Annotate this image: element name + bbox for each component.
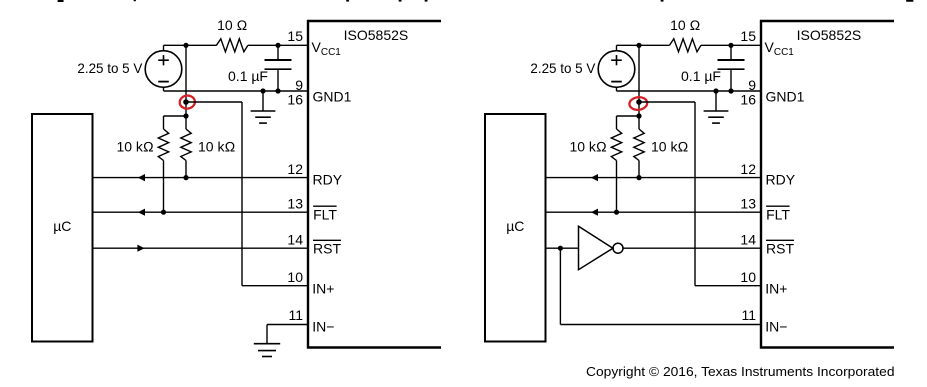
svg-text:FLT: FLT xyxy=(313,206,337,222)
wire IN- pin 11 right xyxy=(560,324,761,326)
pin number 10 left xyxy=(287,269,303,285)
pin label GND1 left xyxy=(313,89,352,105)
wire vsource top stub left xyxy=(163,45,165,51)
capacitor C_right value label 0.1 uF xyxy=(681,68,721,84)
pin label RST (active low) left xyxy=(313,240,341,256)
pin number 12 right xyxy=(740,161,756,177)
capacitor C_left value label 0.1 uF xyxy=(228,68,268,84)
voltage source label 2.25 to 5 V left xyxy=(77,60,143,76)
voltage source V_left 2.25 to 5 V xyxy=(145,51,182,88)
voltage source label 2.25 to 5 V right xyxy=(530,60,596,76)
wire node to IN+ branch horizontal right xyxy=(639,101,695,103)
resistor R_leftB value label 10 kOhm xyxy=(116,139,153,155)
junction bottom rail / capacitor left xyxy=(275,88,280,93)
wire bottom rail to GND1 pin 9/16 right xyxy=(617,90,762,92)
wire RDY pin 12 to uC right xyxy=(546,174,762,181)
wire node to IN+ branch horizontal left xyxy=(186,101,242,103)
pin number 15 right xyxy=(740,28,756,44)
wire resistor to VCC1 pin 15 left xyxy=(248,44,308,46)
wire bottom rail to GND1 pin 9/16 left xyxy=(164,90,309,92)
pin label VCC1 left xyxy=(312,39,342,58)
svg-text:11: 11 xyxy=(741,307,756,323)
svg-text:13: 13 xyxy=(740,196,756,212)
ground symbol at GND1 right xyxy=(704,91,729,123)
svg-text:IN+: IN+ xyxy=(765,281,787,297)
voltage source V_right 2.25 to 5 V xyxy=(598,51,635,88)
capacitor C_right 0.1 uF xyxy=(718,45,745,91)
wire resistor to VCC1 pin 15 right xyxy=(701,44,761,46)
svg-text:10 Ω: 10 Ω xyxy=(217,17,247,33)
junction bottom rail / ground right xyxy=(713,88,718,93)
pin label IN+ right xyxy=(765,281,787,297)
wire top supply rail to resistor right xyxy=(617,44,670,46)
svg-text:RST: RST xyxy=(313,240,341,256)
junction RST/IN- right xyxy=(558,246,563,251)
copyright notice xyxy=(586,364,895,379)
wire RDY pin 12 to uC left xyxy=(93,174,309,181)
pin number 11 right xyxy=(741,307,756,323)
wire FLT pin 13 to uC right xyxy=(546,209,762,216)
pin label FLT (active low) left xyxy=(313,206,337,222)
pin label RST (active low) right xyxy=(766,240,794,256)
wire vsource bottom stub right xyxy=(616,87,618,91)
pin label IN+ left xyxy=(312,281,334,297)
pin label IN- left xyxy=(312,319,334,335)
pin label VCC1 right xyxy=(765,39,795,58)
node highlighted (red circle) left xyxy=(179,95,196,110)
pin label FLT (active low) right xyxy=(766,206,790,222)
pin number 13 right xyxy=(740,196,756,212)
svg-text:12: 12 xyxy=(740,161,756,177)
wire IN+ branch to pin 10 left xyxy=(242,285,308,287)
wire vsource top stub right xyxy=(616,45,618,51)
resistor R_rightA 10 Ohm xyxy=(670,39,702,52)
resistor R_leftC 10 kOhm (right pull) xyxy=(181,116,191,178)
IC U_right label ISO5852S xyxy=(797,27,862,43)
pin label IN- right xyxy=(765,319,787,335)
junction RDY / divider left xyxy=(183,175,188,180)
microcontroller box uC right xyxy=(485,114,546,342)
svg-text:RDY: RDY xyxy=(766,172,796,188)
resistor R_rightB value label 10 kOhm xyxy=(569,139,606,155)
resistor R_rightC value label 10 kOhm xyxy=(651,139,688,155)
svg-text:13: 13 xyxy=(287,196,303,212)
wire IN+ branch vertical left xyxy=(241,102,243,286)
pin number 10 right xyxy=(740,269,756,285)
svg-text:15: 15 xyxy=(287,28,303,44)
pin label GND1 right xyxy=(766,89,805,105)
wire FLT pin 13 to uC left xyxy=(93,209,309,216)
junction RDY / divider right xyxy=(636,175,641,180)
IC U_left label ISO5852S xyxy=(344,27,409,43)
junction FLT / divider right xyxy=(614,210,619,215)
ground symbol at IN- left xyxy=(254,344,280,357)
pin number 9 left xyxy=(295,77,303,93)
svg-text:2.25 to 5 V: 2.25 to 5 V xyxy=(77,60,143,76)
junction divider top right xyxy=(636,113,641,118)
resistor R_leftB 10 kOhm (left pull) xyxy=(158,116,168,212)
cropped caption text fragments at top edge xyxy=(58,0,914,2)
svg-text:2.25 to 5 V: 2.25 to 5 V xyxy=(530,60,596,76)
IC U_left ISO5852S box outline xyxy=(308,21,441,348)
resistor R_leftC value label 10 kOhm xyxy=(198,139,235,155)
svg-text:14: 14 xyxy=(287,232,303,248)
svg-text:Copyright © 2016, Texas Instru: Copyright © 2016, Texas Instruments Inco… xyxy=(586,364,895,379)
svg-text:GND1: GND1 xyxy=(313,89,352,105)
svg-text:15: 15 xyxy=(740,28,756,44)
pin label RDY right xyxy=(766,172,796,188)
wire inverter output to RST pin 14 right xyxy=(623,247,761,249)
capacitor C_left 0.1 uF xyxy=(265,45,292,91)
svg-text:0.1 µF: 0.1 µF xyxy=(681,68,721,84)
svg-text:0.1 µF: 0.1 µF xyxy=(228,68,268,84)
junction bottom rail / capacitor right xyxy=(728,88,733,93)
svg-text:10 Ω: 10 Ω xyxy=(670,17,700,33)
wire vsource bottom stub left xyxy=(163,87,165,91)
svg-text:12: 12 xyxy=(287,161,303,177)
svg-text:GND1: GND1 xyxy=(766,89,805,105)
svg-text:FLT: FLT xyxy=(766,206,790,222)
pin number 16 right xyxy=(740,92,756,108)
wire RST uC to inverter input right xyxy=(546,247,579,249)
wire divider drop from top rail node left xyxy=(185,45,187,116)
svg-text:10: 10 xyxy=(740,269,756,285)
svg-text:ISO5852S: ISO5852S xyxy=(797,27,862,43)
pin number 13 left xyxy=(287,196,303,212)
svg-text:IN+: IN+ xyxy=(312,281,334,297)
wire RST node down to IN- right xyxy=(559,248,561,324)
junction node A (red circled) right xyxy=(636,99,642,105)
wire RST uC to pin 14 left xyxy=(93,245,309,252)
junction top rail / divider right xyxy=(636,43,641,48)
resistor R_rightB 10 kOhm (left pull) xyxy=(611,116,621,212)
svg-text:10: 10 xyxy=(287,269,303,285)
junction divider top left xyxy=(183,113,188,118)
svg-text:IN−: IN− xyxy=(765,319,787,335)
resistor R_rightC 10 kOhm (right pull) xyxy=(634,116,644,178)
svg-text:µC: µC xyxy=(506,218,524,234)
ground symbol at GND1 left xyxy=(251,91,276,123)
wire IN+ branch to pin 10 right xyxy=(695,285,761,287)
wire top supply rail to resistor left xyxy=(164,44,217,46)
svg-text:ISO5852S: ISO5852S xyxy=(344,27,409,43)
IC U_right ISO5852S box outline xyxy=(761,21,894,348)
wire divider top tie left xyxy=(164,115,187,117)
wire IN+ branch vertical right xyxy=(694,102,696,286)
microcontroller box uC left xyxy=(32,114,93,342)
svg-text:16: 16 xyxy=(287,92,303,108)
svg-text:10 kΩ: 10 kΩ xyxy=(569,139,606,155)
svg-text:16: 16 xyxy=(740,92,756,108)
pin number 15 left xyxy=(287,28,303,44)
junction node A (red circled) left xyxy=(183,99,189,105)
svg-text:RST: RST xyxy=(766,240,794,256)
svg-text:10 kΩ: 10 kΩ xyxy=(116,139,153,155)
pin number 16 left xyxy=(287,92,303,108)
pin number 14 right xyxy=(740,232,756,248)
svg-text:IN−: IN− xyxy=(312,319,334,335)
resistor R_rightA value label 10 Ohm xyxy=(670,17,700,33)
junction FLT / divider left xyxy=(161,210,166,215)
pin label RDY left xyxy=(313,172,343,188)
svg-text:µC: µC xyxy=(53,218,71,234)
resistor R_leftA 10 Ohm xyxy=(216,39,248,52)
node highlighted (red circle) right xyxy=(629,96,648,110)
inverter U2 (NOT gate) xyxy=(579,226,624,270)
svg-text:VCC1: VCC1 xyxy=(765,39,795,58)
wire divider top tie right xyxy=(617,115,640,117)
resistor R_leftA value label 10 Ohm xyxy=(217,17,247,33)
svg-text:10 kΩ: 10 kΩ xyxy=(198,139,235,155)
pin number 12 left xyxy=(287,161,303,177)
svg-text:RDY: RDY xyxy=(313,172,343,188)
junction bottom rail / ground left xyxy=(260,88,265,93)
junction top rail / capacitor left xyxy=(275,43,280,48)
junction top rail / capacitor right xyxy=(728,43,733,48)
svg-text:11: 11 xyxy=(288,307,303,323)
svg-text:VCC1: VCC1 xyxy=(312,39,342,58)
wire IN- pin 11 to ground left xyxy=(267,325,308,344)
pin number 11 left xyxy=(288,307,303,323)
junction top rail / divider left xyxy=(183,43,188,48)
svg-text:14: 14 xyxy=(740,232,756,248)
wire divider drop from top rail node right xyxy=(638,45,640,116)
svg-text:10 kΩ: 10 kΩ xyxy=(651,139,688,155)
pin number 14 left xyxy=(287,232,303,248)
pin number 9 right xyxy=(748,77,756,93)
